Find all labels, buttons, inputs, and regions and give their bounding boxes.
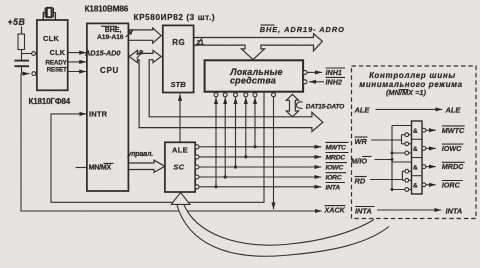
wire node A to clock RES pin	[22, 53, 32, 55]
wire ALE from SC to RG STB	[179, 94, 181, 142]
junction dot IOWC row	[234, 165, 237, 168]
wire RESET clock to CPU	[68, 71, 87, 73]
control bus arrow CPU to SC	[128, 160, 165, 172]
capacitor C1	[15, 61, 30, 67]
wire XACK from local facilities pin down arrow	[273, 97, 275, 209]
inset M/IO wire	[375, 159, 393, 161]
dashed box minimal mode bus controller	[352, 66, 477, 219]
wire MWTC row	[199, 146, 321, 148]
bubble RD gate4	[405, 178, 409, 182]
bus label bracket	[297, 102, 303, 109]
inset MRDC output	[426, 166, 436, 168]
inset RD wire with fork to bubbles	[370, 171, 405, 180]
bus arrow DAT vertical bidirectional	[286, 94, 298, 117]
pin circle clock RDY	[32, 72, 36, 76]
wire READY clock to CPU	[68, 61, 87, 63]
inset INTA wire	[377, 209, 441, 211]
bus width mark 16	[137, 51, 144, 59]
wire capacitor to node B	[21, 66, 23, 73]
wire +5V to resistor	[21, 27, 23, 35]
wire MRDC row	[199, 156, 321, 158]
wire pin2 to IORC row	[224, 97, 226, 177]
gate stack 4 AND gates	[412, 121, 423, 194]
junction dot M/IO tap2	[391, 152, 394, 155]
M/IO vertical distribution	[392, 126, 412, 190]
register RG U3 KR580IR82	[163, 25, 194, 92]
bubble WR gate2	[405, 142, 409, 146]
big arrowhead into SC bottom	[171, 193, 190, 205]
wire IORC row	[199, 176, 321, 178]
wire INH2 in	[309, 81, 324, 83]
wire INTA row	[199, 186, 321, 188]
wire INTR return from local facilities	[51, 93, 264, 203]
CPU U2 K1810VM86	[87, 23, 128, 191]
bubble M/IO gate2	[405, 151, 409, 155]
wire XACK net	[21, 74, 322, 211]
inset WR wire with fork to bubbles	[371, 135, 405, 144]
bubble RD gate3	[405, 169, 409, 173]
wire node B to clock RDY pin	[21, 73, 30, 75]
crystal BQ1	[43, 8, 55, 20]
junction dot IORC row	[224, 175, 227, 178]
bus arrow BHE A19-A16 CPU to RG	[128, 28, 161, 43]
wire pin3 to IOWC row	[235, 97, 237, 167]
pin circles bottom of local facilities	[214, 93, 276, 97]
junction dot INTA row	[214, 185, 217, 188]
wire pin4 to MRDC row	[245, 97, 247, 157]
inset IOWC output	[426, 147, 436, 149]
junction dot MWTC row	[253, 145, 256, 148]
wire CLK clock to CPU	[68, 52, 87, 54]
inset MWTC output	[426, 129, 436, 131]
wire pin5 to MWTC row	[254, 97, 256, 147]
bus arrow AD15-AD0 bidirectional with branch down	[129, 50, 323, 131]
stub wire MN/MX	[76, 167, 87, 169]
bubble WR gate1	[405, 133, 409, 137]
gate output bubbles	[422, 128, 426, 186]
bus width mark 5	[126, 31, 133, 37]
paper grain	[0, 0, 1, 1]
bubble M/IO gate4	[405, 188, 409, 192]
bus width mark 21	[195, 38, 202, 46]
pin circle clock RES	[32, 52, 36, 56]
address bus RG to system with branch to local facilities	[194, 34, 323, 60]
wire node A to capacitor	[21, 54, 23, 60]
wire INH1 out	[307, 71, 322, 73]
junction dot M/IO tap4	[391, 188, 394, 191]
local facilities block	[205, 60, 304, 91]
inset IORC output	[426, 184, 436, 186]
inset ALE wire	[376, 108, 443, 110]
resistor R1	[18, 34, 25, 50]
pin circle INH1	[303, 70, 307, 74]
junction dot M/IO	[391, 158, 394, 161]
big feedback arrow INTA to SC	[177, 204, 389, 256]
wire resistor to node A	[21, 50, 23, 54]
junction dot MRDC row	[244, 155, 247, 158]
clock generator U1 K1810GF84	[37, 20, 68, 90]
pin circle INH2	[303, 80, 307, 84]
wire pin1 to INTA row	[215, 97, 217, 187]
system controller SC block	[165, 142, 195, 192]
wire IOWC row	[199, 166, 321, 168]
SC output pin circles	[195, 145, 199, 189]
